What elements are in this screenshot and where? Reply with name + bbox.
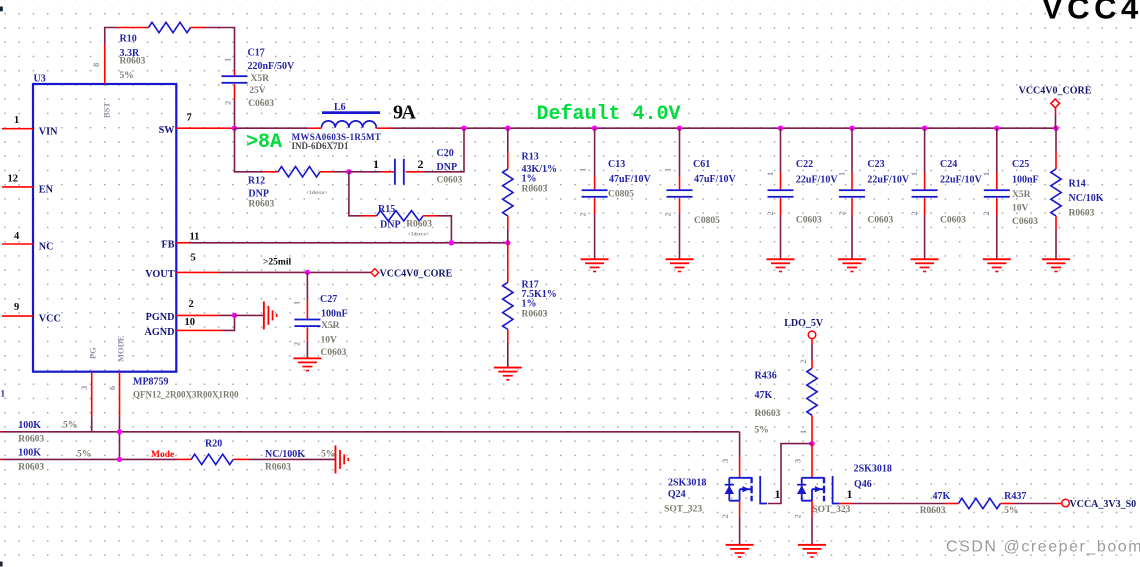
svg-text:L6: L6 (334, 102, 346, 113)
svg-text:220nF/50V: 220nF/50V (248, 61, 295, 72)
svg-text:NC: NC (39, 241, 54, 252)
svg-text:PG: PG (88, 347, 98, 359)
svg-text:EN: EN (39, 184, 54, 195)
ground Q24 (726, 544, 754, 558)
ground C13 (581, 258, 609, 272)
svg-text:1: 1 (291, 301, 301, 305)
wire node to R15 (349, 172, 362, 216)
svg-text:3: 3 (793, 459, 803, 463)
svg-text:R0603: R0603 (1069, 208, 1095, 218)
capacitor C23 (836, 159, 909, 226)
node PG/MODE junction (117, 429, 122, 434)
resistor R15 (377, 204, 433, 238)
svg-text:VCC4V0_CORE: VCC4V0_CORE (1019, 86, 1092, 97)
node rail-C61 junction (677, 126, 682, 131)
screen clip mark top-left (0, 7, 3, 12)
svg-text:2: 2 (291, 342, 301, 346)
svg-text:>8A: >8A (246, 131, 282, 154)
svg-text:<1dsrce>: <1dsrce> (408, 231, 429, 237)
svg-text:R0603: R0603 (265, 463, 291, 473)
port VCCA_3V3_S0 (1062, 499, 1136, 510)
svg-text:9A: 9A (393, 101, 417, 123)
svg-text:5%: 5% (755, 425, 769, 435)
wire rail to C25 (996, 128, 998, 172)
svg-text:2: 2 (793, 514, 803, 518)
svg-text:VCC: VCC (39, 313, 61, 324)
svg-text:R15: R15 (378, 204, 395, 215)
svg-text:R0603: R0603 (406, 219, 432, 229)
wire to R10 (117, 27, 149, 29)
wire SW to L6 (235, 127, 309, 129)
svg-text:1: 1 (662, 168, 672, 172)
wire C17 to SW node (234, 84, 236, 99)
svg-text:C23: C23 (867, 159, 884, 170)
wire R20 to ground (233, 458, 249, 460)
svg-text:2: 2 (765, 211, 775, 215)
wire C27 to ground (306, 327, 308, 342)
pin 12 EN (2, 173, 54, 195)
svg-text:R20: R20 (205, 439, 222, 450)
node FB/R13/R17 junction (505, 240, 510, 245)
ground Mode sideways (335, 445, 350, 473)
capacitor C17 (222, 75, 248, 83)
capacitor C13 (578, 159, 652, 217)
capacitor C20 (373, 148, 463, 186)
node PGND/AGND junction (232, 313, 237, 318)
node rail-C13 junction (592, 126, 597, 131)
svg-text:C0603: C0603 (437, 175, 463, 185)
svg-text:R437: R437 (1004, 491, 1026, 502)
svg-text:1: 1 (14, 115, 19, 126)
svg-text:R0603: R0603 (18, 463, 44, 473)
svg-text:LDO_5V: LDO_5V (784, 318, 824, 329)
wire R12 to node (320, 171, 334, 173)
wire rail to C23 (851, 128, 853, 172)
svg-text:Mode: Mode (151, 450, 174, 460)
svg-text:100K: 100K (18, 447, 41, 458)
wire rail to R13 (507, 128, 509, 152)
svg-text:1: 1 (373, 157, 379, 171)
pin 11 FB (161, 232, 199, 251)
svg-text:BST: BST (102, 102, 112, 118)
wire Mode net horizontal (0, 458, 2, 460)
svg-text:2: 2 (909, 211, 919, 215)
svg-text:10V: 10V (1012, 204, 1029, 214)
svg-text:5%: 5% (63, 421, 77, 431)
ground R14 (1042, 258, 1070, 272)
capacitor C61 (662, 159, 736, 226)
svg-text:2SK3018: 2SK3018 (854, 464, 892, 475)
svg-text:C22: C22 (796, 159, 813, 170)
svg-text:MP8759: MP8759 (133, 377, 169, 388)
svg-text:2SK3018: 2SK3018 (668, 477, 706, 488)
svg-text:9: 9 (14, 302, 19, 313)
svg-text:R0603: R0603 (522, 310, 548, 320)
svg-text:X5R: X5R (1012, 190, 1031, 200)
node Mode junction (117, 457, 122, 462)
node rail-C23 junction (849, 126, 854, 131)
svg-text:Default 4.0V: Default 4.0V (537, 103, 681, 126)
svg-text:VOUT: VOUT (145, 269, 174, 280)
wire VOUT net (176, 271, 219, 273)
svg-text:NC/10K: NC/10K (1069, 193, 1104, 204)
svg-text:7: 7 (187, 112, 192, 123)
node R12/C20/R15 junction (346, 169, 351, 174)
svg-text:2: 2 (418, 157, 424, 171)
ground R17 (494, 367, 522, 381)
svg-text:C13: C13 (608, 159, 625, 170)
svg-text:R14: R14 (1069, 178, 1086, 189)
svg-text:Q46: Q46 (854, 479, 872, 490)
svg-text:11: 11 (190, 232, 200, 243)
node rail-C20 junction (461, 126, 466, 131)
svg-text:6: 6 (107, 386, 117, 390)
svg-text:R0603: R0603 (522, 185, 548, 195)
ground C23 (838, 258, 866, 272)
svg-text:MODE: MODE (116, 335, 126, 362)
capacitor C24 (909, 159, 982, 226)
port VCC4V0_CORE top circle (1019, 86, 1092, 108)
svg-text:C0603: C0603 (867, 216, 893, 226)
wire Q46 source to ground (811, 501, 813, 517)
ground C61 (666, 258, 694, 272)
ground Q46 (798, 544, 826, 558)
svg-text:C0603: C0603 (248, 99, 274, 109)
svg-text:SW: SW (159, 125, 176, 136)
svg-text:2: 2 (798, 359, 808, 363)
resistor R10 (149, 22, 191, 32)
wire C13 to ground (594, 198, 596, 214)
svg-text:FB: FB (161, 239, 174, 250)
wire C61 to ground (679, 198, 681, 214)
capacitor C25 (981, 159, 1038, 227)
pin 9 VCC (2, 302, 61, 324)
svg-text:VCCA_3V3_S0: VCCA_3V3_S0 (1070, 499, 1137, 510)
wire L6 to rail (376, 127, 391, 129)
svg-text:U3: U3 (34, 74, 46, 85)
svg-text:AGND: AGND (145, 327, 175, 338)
port VCC4V0_CORE diamond (371, 269, 379, 277)
node VOUT/C27 junction (305, 270, 310, 275)
svg-text:R0603: R0603 (248, 200, 274, 210)
svg-text:22uF/10V: 22uF/10V (796, 175, 838, 186)
wire rail to R14 (1055, 128, 1057, 152)
svg-text:R10: R10 (120, 34, 137, 45)
wire to power ground (235, 314, 264, 316)
ground C25 (983, 258, 1011, 272)
svg-text:Q24: Q24 (668, 489, 686, 500)
svg-text:2: 2 (836, 211, 846, 215)
IC U3 MP8759 regulator body (33, 74, 239, 400)
capacitor C27 (291, 294, 347, 358)
wire AGND pin (176, 329, 221, 331)
svg-text:R0603: R0603 (18, 435, 44, 445)
svg-text:2: 2 (189, 299, 194, 310)
wire VOUT to C27 (306, 272, 308, 301)
wire node to Q24 gate (768, 444, 812, 504)
svg-text:5%: 5% (1004, 506, 1018, 516)
wire R436 to node (811, 415, 813, 443)
svg-text:DNP: DNP (248, 189, 269, 200)
svg-text:47uF/10V: 47uF/10V (694, 174, 736, 185)
svg-text:R12: R12 (248, 175, 265, 186)
screen clip mark bottom-left (0, 562, 3, 567)
wire VCC4V0 rail (464, 127, 1056, 129)
svg-text:1: 1 (775, 487, 781, 501)
resistor label 100K upper (18, 420, 77, 445)
node rail-R14 junction (1053, 126, 1058, 131)
wire R17 to ground (507, 329, 509, 343)
wire SW pin (176, 127, 234, 129)
wire Q24 source to ground (739, 501, 741, 517)
svg-text:VCC4: VCC4 (1042, 0, 1140, 26)
svg-text:C0805: C0805 (608, 190, 634, 200)
svg-text:1: 1 (981, 172, 991, 176)
svg-text:VCC4V0_CORE: VCC4V0_CORE (380, 269, 453, 280)
pin 2 PGND (146, 299, 194, 323)
wire PG pin drop (91, 372, 93, 417)
wire R15 to FB (423, 215, 437, 217)
svg-text:3: 3 (79, 386, 89, 390)
wire R12 drop from SW (235, 128, 264, 172)
svg-text:1: 1 (836, 172, 846, 176)
node rail-C25 junction (994, 126, 999, 131)
svg-text:5%: 5% (77, 450, 91, 460)
svg-text:SOT_323: SOT_323 (812, 505, 850, 515)
ground C27 (293, 357, 321, 371)
pin 4 NC (2, 231, 54, 252)
svg-text:CSDN @creeper_boom: CSDN @creeper_boom (946, 539, 1140, 556)
svg-text:100K: 100K (18, 420, 41, 431)
svg-text:QFN12_2R00X3R00X1R00: QFN12_2R00X3R00X1R00 (133, 390, 239, 400)
svg-text:100nF: 100nF (321, 308, 348, 319)
svg-text:5: 5 (191, 253, 196, 264)
svg-text:C0603: C0603 (1012, 217, 1038, 227)
svg-text:C0603: C0603 (321, 348, 347, 358)
svg-text:100nF: 100nF (1012, 175, 1039, 186)
svg-text:SOT_323: SOT_323 (664, 505, 702, 515)
transistor Q46 (793, 459, 892, 519)
svg-text:25V: 25V (249, 86, 265, 96)
wire C22 to ground (780, 198, 782, 215)
svg-text:1: 1 (798, 430, 808, 434)
wire R14 to ground (1055, 216, 1057, 229)
svg-text:NC/100K: NC/100K (265, 449, 305, 460)
wire MODE pin drop (119, 372, 121, 417)
wire LDO_5V to R436 (811, 339, 813, 345)
wire C20 to rail riser (406, 171, 424, 173)
svg-text:VIN: VIN (39, 126, 58, 137)
wire FB net (176, 242, 190, 244)
svg-text:10V: 10V (321, 335, 338, 345)
wire C23 to ground (851, 198, 853, 215)
svg-text:1: 1 (578, 168, 588, 172)
svg-text:8: 8 (91, 63, 101, 67)
resistor R13 (503, 152, 557, 216)
resistor R437 (920, 491, 1027, 516)
svg-text:47K: 47K (933, 491, 951, 502)
svg-text:2: 2 (223, 101, 233, 105)
svg-text:C25: C25 (1012, 159, 1029, 170)
wire BST riser (104, 44, 106, 84)
svg-text:R0603: R0603 (120, 57, 146, 67)
node rail-R13 junction (505, 126, 510, 131)
svg-text:C20: C20 (437, 148, 454, 159)
transistor Q24 (664, 459, 780, 519)
node rail-C24 junction (922, 126, 927, 131)
svg-text:R13: R13 (522, 152, 539, 163)
resistor R12 (278, 167, 320, 177)
port LDO_5V (784, 318, 824, 339)
svg-text:1%: 1% (522, 299, 537, 310)
wire Q46 drain (811, 444, 813, 478)
svg-text:2: 2 (981, 211, 991, 215)
inductor L6 (292, 102, 382, 151)
svg-text:5%: 5% (321, 450, 335, 460)
wire R13 to FB (507, 216, 509, 229)
svg-text:C61: C61 (693, 159, 710, 170)
pin 10 AGND (145, 317, 196, 338)
wire R437 to port (1000, 503, 1013, 505)
resistor R20 (191, 439, 335, 473)
node R436/Q46 junction (809, 441, 814, 446)
svg-text:1: 1 (765, 172, 775, 176)
resistor R436 (755, 359, 818, 435)
wire PG net horizontal (0, 431, 2, 433)
svg-text:C24: C24 (940, 159, 957, 170)
ground C22 (767, 258, 795, 272)
wire rail to C61 (679, 128, 681, 176)
svg-text:1: 1 (847, 487, 853, 501)
svg-text:3: 3 (720, 459, 730, 463)
svg-text:C17: C17 (248, 48, 265, 59)
svg-text:<1dsrce>: <1dsrce> (306, 190, 327, 196)
wire R10 to C17 (191, 27, 207, 29)
node rail-C22 junction (778, 126, 783, 131)
svg-text:IND-6D6X7D1: IND-6D6X7D1 (292, 141, 349, 151)
svg-text:2: 2 (720, 514, 730, 518)
svg-text:10: 10 (185, 317, 196, 328)
ground PGND sideways (263, 301, 278, 329)
svg-text:22uF/10V: 22uF/10V (867, 175, 909, 186)
wire Q46 gate to R437 (840, 503, 851, 505)
svg-text:X5R: X5R (321, 321, 340, 331)
wire node to C20 (349, 171, 381, 173)
svg-text:R0603: R0603 (755, 409, 781, 419)
svg-text:5%: 5% (120, 71, 134, 81)
capacitor C22 (765, 159, 838, 226)
svg-text:4: 4 (14, 231, 20, 242)
resistor R14 (1051, 169, 1104, 218)
svg-text:C0603: C0603 (940, 216, 966, 226)
wire port to rail (1055, 108, 1057, 115)
svg-text:R0603: R0603 (920, 506, 946, 516)
svg-text:1: 1 (1, 389, 6, 399)
wire PGND pin (176, 314, 220, 316)
wire C24 to ground (924, 198, 926, 215)
pin 7 SW (159, 112, 192, 136)
wire FB to R17 (507, 243, 509, 283)
resistor label 100K lower (18, 447, 91, 472)
svg-text:2: 2 (662, 212, 672, 216)
svg-text:2: 2 (578, 212, 588, 216)
wire Q24 drain drop (739, 432, 741, 457)
svg-text:1: 1 (909, 172, 919, 176)
node FB/R15 junction (449, 240, 454, 245)
svg-text:DNP: DNP (380, 219, 401, 230)
svg-text:>25mil: >25mil (263, 258, 291, 268)
svg-text:C27: C27 (320, 294, 337, 305)
svg-text:X5R: X5R (251, 74, 270, 84)
svg-text:47uF/10V: 47uF/10V (609, 174, 651, 185)
wire rail to C24 (924, 128, 926, 172)
wire rail to C13 (594, 128, 596, 176)
svg-text:C0603: C0603 (796, 216, 822, 226)
pin 5 VOUT (145, 253, 195, 281)
svg-text:1: 1 (223, 58, 233, 62)
svg-text:12: 12 (8, 173, 19, 184)
wire C25 to ground (996, 198, 998, 215)
svg-text:1%: 1% (522, 174, 537, 185)
svg-text:47K: 47K (755, 390, 773, 401)
svg-text:C0805: C0805 (694, 216, 720, 226)
pin 1 VIN (2, 115, 58, 137)
svg-text:R436: R436 (755, 370, 777, 381)
node SW junction at C17 (232, 126, 237, 131)
resistor R17 (503, 280, 557, 330)
wire rail to C22 (780, 128, 782, 172)
svg-text:PGND: PGND (146, 312, 175, 323)
ground C24 (911, 258, 939, 272)
svg-text:22uF/10V: 22uF/10V (940, 175, 982, 186)
